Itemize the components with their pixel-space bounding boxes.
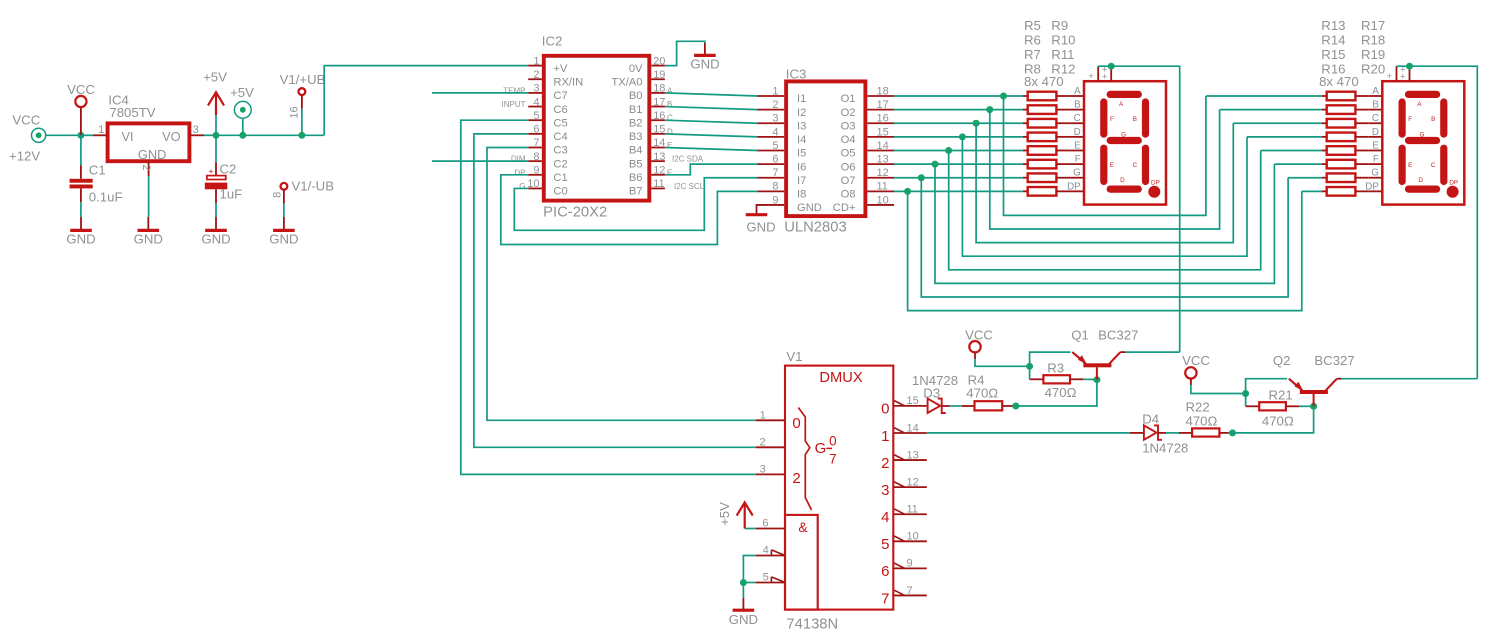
svg-text:19: 19 <box>653 69 665 81</box>
svg-text:6: 6 <box>881 563 889 580</box>
svg-text:2: 2 <box>881 455 889 472</box>
svg-text:+: + <box>1102 72 1108 83</box>
IC3 pin 13 O6 <box>867 163 894 165</box>
wire segment DP to display 2 bus <box>908 191 1302 310</box>
svg-text:O7: O7 <box>841 175 856 187</box>
IC3 pin 4 I4 <box>758 136 785 138</box>
svg-text:13: 13 <box>877 154 889 166</box>
svg-text:GND: GND <box>138 147 166 162</box>
wire +5V rail to IC2 pin1 <box>324 66 528 136</box>
svg-text:2: 2 <box>533 69 539 81</box>
svg-text:R17: R17 <box>1361 18 1385 33</box>
svg-text:TEMP: TEMP <box>503 86 525 95</box>
DMUX input pin 3 <box>756 473 785 475</box>
svg-text:+5V: +5V <box>717 502 732 526</box>
svg-text:1uF: 1uF <box>220 187 243 202</box>
wire IC3 O8 to resistor network R12 <box>894 190 1023 192</box>
IC4 pin 3 VO <box>190 134 205 136</box>
svg-text:R10: R10 <box>1051 33 1075 48</box>
svg-text:C: C <box>1372 113 1379 124</box>
DMUX output 5 pin 10 <box>893 540 927 542</box>
svg-text:18: 18 <box>653 83 665 95</box>
svg-text:3: 3 <box>772 113 778 125</box>
svg-text:G: G <box>1371 168 1379 179</box>
svg-text:+: + <box>1386 71 1392 82</box>
wire display 1 common to Q1 collector <box>1111 66 1180 352</box>
wires IC2 B0-B4 to IC3 I1-I5 <box>665 93 758 96</box>
DMUX output 3 pin 12 <box>893 486 927 488</box>
resistor R14 (array 2, segment B) <box>1322 109 1327 111</box>
svg-text:C0: C0 <box>553 186 567 198</box>
wire IC3 O1 to resistor network R5 <box>894 95 1023 97</box>
+5V arrow symbol at regulator output <box>208 92 224 105</box>
resistor R8 (array 1, segment D) <box>1023 136 1028 138</box>
svg-text:E: E <box>1074 140 1081 151</box>
wire IC3 O3 to resistor network R7 <box>894 122 1023 124</box>
wire IC2 pin20 to ground <box>665 41 705 65</box>
svg-text:C: C <box>1431 162 1436 169</box>
svg-text:18: 18 <box>877 85 889 97</box>
+5V arrow at DMUX pin6 <box>745 528 756 530</box>
wire DMUX pins 4,5 to ground <box>743 556 755 583</box>
resistor R15 (array 2, segment C) <box>1322 122 1327 124</box>
wire segment F to display 2 bus <box>935 164 1274 283</box>
svg-text:I2C SDA: I2C SDA <box>672 155 704 164</box>
DMUX output 7 pin 7 <box>893 594 927 596</box>
svg-text:470Ω: 470Ω <box>1045 385 1077 400</box>
svg-text:C: C <box>1074 113 1081 124</box>
zener diode D4 1N4728 <box>1130 432 1144 434</box>
svg-text:B5: B5 <box>629 158 643 170</box>
resistor R6 (array 1, segment B) <box>1023 109 1028 111</box>
wire VCC to Q2 emitter <box>1246 379 1287 394</box>
svg-text:Q1: Q1 <box>1071 327 1089 342</box>
display 2 pin G <box>1369 177 1383 179</box>
ground C2 <box>215 217 217 230</box>
svg-text:B2: B2 <box>629 117 643 129</box>
svg-text:20: 20 <box>653 55 665 67</box>
IC2 pin 14 B4 <box>651 147 665 149</box>
svg-text:10: 10 <box>907 531 919 543</box>
svg-text:GND: GND <box>201 231 230 246</box>
wire G net IC2 pin10 to IC3 I7 <box>514 178 757 231</box>
display 1 segment B <box>1142 98 1149 137</box>
+5V rail wire <box>216 134 324 136</box>
svg-text:VI: VI <box>122 129 134 144</box>
node segment D branch <box>959 133 966 140</box>
svg-text:14: 14 <box>877 140 889 152</box>
wire VCC to Q1 emitter <box>1030 352 1071 366</box>
svg-text:470Ω: 470Ω <box>966 386 998 401</box>
display 2 pin DP <box>1369 190 1383 192</box>
svg-text:B: B <box>1372 100 1379 111</box>
svg-text:9: 9 <box>772 194 778 206</box>
resistor R20 (array 2, segment DP) <box>1322 190 1327 192</box>
display 1 pin DP <box>1070 190 1084 192</box>
svg-text:E: E <box>1372 140 1379 151</box>
svg-text:R11: R11 <box>1051 47 1074 62</box>
display 1 pin F <box>1070 163 1084 165</box>
svg-text:+5V: +5V <box>203 69 227 84</box>
svg-text:+5V: +5V <box>230 85 254 100</box>
svg-text:ULN2803: ULN2803 <box>784 220 847 236</box>
IC2 pin 7 C3 <box>528 147 542 149</box>
svg-text:3: 3 <box>760 463 766 475</box>
svg-text:B: B <box>1133 116 1137 123</box>
node R22 output <box>1229 429 1236 436</box>
zener diode D3 1N4728 <box>928 399 941 413</box>
IC2 pin 18 B0 <box>651 92 665 94</box>
IC3 pin 7 I7 <box>758 177 785 179</box>
svg-text:B3: B3 <box>629 131 643 143</box>
svg-text:D: D <box>1074 127 1081 138</box>
voltage regulator IC4 7805TV <box>108 123 190 161</box>
svg-text:IC3: IC3 <box>786 67 807 82</box>
svg-text:9: 9 <box>533 165 539 177</box>
svg-text:V1/+UB: V1/+UB <box>280 72 326 87</box>
ground IC2 pin20 <box>694 54 716 57</box>
resistor R21 470 <box>1245 394 1247 407</box>
display 1 pin C <box>1070 122 1084 124</box>
svg-text:R5: R5 <box>1024 18 1041 33</box>
svg-text:I6: I6 <box>797 161 806 173</box>
svg-text:GND: GND <box>746 219 775 234</box>
VCC supply symbol <box>80 107 82 135</box>
svg-text:C5: C5 <box>553 117 567 129</box>
IC4 pin 1 VI <box>93 134 108 136</box>
svg-text:3: 3 <box>533 83 539 95</box>
svg-text:2: 2 <box>792 470 800 487</box>
wire DMUX output 1 to D4 <box>927 432 1130 434</box>
svg-text:+: + <box>209 166 214 176</box>
IC3 pin 6 I6 <box>758 163 785 165</box>
DMUX AND sub-block <box>785 515 818 610</box>
svg-text:C4: C4 <box>553 131 567 143</box>
svg-text:3: 3 <box>193 124 199 136</box>
wire IC2 C5 to DMUX pin3 <box>461 120 756 474</box>
svg-text:DP: DP <box>1365 181 1379 192</box>
display 2 segment F <box>1399 98 1406 137</box>
wire R4 to Q1 base <box>1016 380 1097 406</box>
svg-text:13: 13 <box>653 151 665 163</box>
wire segment C to display 2 bus <box>976 123 1233 242</box>
svg-text:17: 17 <box>877 99 889 111</box>
pad V1/+UB pin 16 <box>299 88 306 95</box>
svg-text:O2: O2 <box>841 107 856 119</box>
svg-text:D4: D4 <box>1142 412 1159 427</box>
svg-text:VCC: VCC <box>67 82 95 97</box>
svg-text:C6: C6 <box>553 104 567 116</box>
svg-text:12: 12 <box>877 167 889 179</box>
demultiplexer V1 74138N <box>785 366 893 610</box>
display 1 segment D <box>1107 186 1142 193</box>
IC2 pin 1 +V <box>528 65 542 67</box>
svg-text:O6: O6 <box>841 161 856 173</box>
svg-text:E: E <box>667 141 672 150</box>
svg-text:C7: C7 <box>553 90 567 102</box>
svg-text:D3: D3 <box>923 386 940 401</box>
svg-text:0: 0 <box>829 433 836 448</box>
svg-text:I2: I2 <box>797 107 806 119</box>
svg-text:I7: I7 <box>797 175 806 187</box>
IC4 pin 2 GND <box>148 161 150 176</box>
display 2 segment C <box>1440 145 1447 186</box>
svg-text:470Ω: 470Ω <box>1186 413 1218 428</box>
svg-text:GND: GND <box>690 57 719 72</box>
svg-text:6: 6 <box>762 518 768 530</box>
svg-text:G: G <box>1073 168 1081 179</box>
node segment E branch <box>945 147 952 154</box>
IC3 pin 15 O4 <box>867 136 894 138</box>
svg-text:DP: DP <box>514 168 525 177</box>
svg-text:O5: O5 <box>841 148 856 160</box>
svg-text:IC2: IC2 <box>542 33 563 48</box>
node segment B branch <box>986 106 993 113</box>
svg-text:O1: O1 <box>841 93 856 105</box>
svg-text:PIC-20X2: PIC-20X2 <box>543 204 607 220</box>
svg-text:C1: C1 <box>89 162 106 177</box>
svg-text:1: 1 <box>533 55 539 67</box>
DMUX output 2 pin 13 <box>893 459 927 461</box>
svg-text:G: G <box>1121 132 1126 139</box>
svg-text:Q2: Q2 <box>1273 353 1291 368</box>
DMUX enable pin 5 (inverted) <box>756 582 785 584</box>
svg-text:74138N: 74138N <box>786 616 838 632</box>
wire IC2 C3 to DMUX pin1 <box>487 148 756 421</box>
node rail at +5V pad <box>239 132 246 139</box>
svg-text:R13: R13 <box>1321 18 1345 33</box>
svg-text:12: 12 <box>653 165 665 177</box>
IC2 pin 10 C0 <box>528 187 542 189</box>
display 1 decimal point <box>1148 186 1160 198</box>
svg-text:7: 7 <box>772 167 778 179</box>
IC2 pin 5 C5 <box>528 119 542 121</box>
IC3 pin 9 GND <box>758 204 785 206</box>
node Q2 emitter/R21 junction <box>1242 390 1249 397</box>
wire IC3 O4 to resistor network R8 <box>894 136 1023 138</box>
svg-text:8x 470: 8x 470 <box>1319 74 1359 89</box>
svg-text:11: 11 <box>907 504 918 516</box>
supply pad VCC (+12V input) <box>31 128 45 142</box>
node Q1 emitter/R3 junction <box>1026 363 1033 370</box>
IC2 pin 8 C2 <box>528 160 542 162</box>
wire IC2 C4 to DMUX pin2 <box>474 134 756 447</box>
resistor R3 470 <box>1029 366 1031 379</box>
svg-text:A: A <box>1074 86 1081 97</box>
display 1 common anode pins + <box>1097 66 1099 81</box>
svg-text:0V: 0V <box>629 63 643 75</box>
svg-text:E: E <box>1408 162 1412 169</box>
svg-text:BC327: BC327 <box>1314 353 1354 368</box>
resistor R12 (array 1, segment DP) <box>1023 190 1028 192</box>
ground IC4 <box>147 217 149 230</box>
display 1 segment E <box>1100 145 1107 186</box>
svg-text:VO: VO <box>162 129 181 144</box>
display 1 segment F <box>1100 98 1107 137</box>
svg-text:B: B <box>667 100 672 109</box>
svg-text:1: 1 <box>772 85 778 97</box>
IC2 pin 15 B3 <box>651 133 665 135</box>
svg-text:D: D <box>1120 177 1125 184</box>
svg-text:13: 13 <box>907 449 919 461</box>
svg-text:A: A <box>1372 86 1379 97</box>
svg-text:R21: R21 <box>1269 388 1293 403</box>
svg-text:A: A <box>667 86 673 95</box>
supply VCC for Q2 <box>1185 367 1196 378</box>
DMUX input pin 1 <box>756 419 785 421</box>
svg-text:R6: R6 <box>1024 33 1041 48</box>
svg-text:470Ω: 470Ω <box>1262 413 1294 428</box>
svg-text:B4: B4 <box>629 145 643 157</box>
svg-text:1N4728: 1N4728 <box>1142 440 1188 455</box>
IC2 pin 11 B7 <box>651 187 665 189</box>
resistor R4 470 <box>962 405 975 407</box>
display 2 segment D <box>1405 186 1440 193</box>
svg-text:6: 6 <box>772 154 778 166</box>
svg-text:8: 8 <box>272 192 284 198</box>
resistor R5 (array 1, segment A) <box>1023 95 1028 97</box>
svg-text:GND: GND <box>797 202 822 214</box>
svg-text:GND: GND <box>66 231 95 246</box>
wire display 2 common to Q2 collector <box>1410 66 1478 379</box>
IC3 pin 2 I2 <box>758 109 785 111</box>
display 2 pin A <box>1369 95 1383 97</box>
node rail at C2 <box>213 132 220 139</box>
svg-text:DP: DP <box>1067 181 1081 192</box>
DMUX output 6 pin 9 <box>893 567 927 569</box>
svg-text:+12V: +12V <box>9 149 40 164</box>
svg-text:4: 4 <box>772 126 778 138</box>
IC2 pin 9 C1 <box>528 174 542 176</box>
svg-text:+: + <box>1400 72 1406 83</box>
display 1 segment C <box>1142 145 1149 186</box>
svg-text:7: 7 <box>907 585 913 597</box>
svg-text:I3: I3 <box>797 120 806 132</box>
svg-text:R9: R9 <box>1051 18 1068 33</box>
svg-text:7805TV: 7805TV <box>109 105 155 120</box>
svg-text:O3: O3 <box>841 120 856 132</box>
wire DP net IC2 pin9 to IC3 I8 <box>501 175 758 245</box>
svg-text:VCC: VCC <box>1182 353 1210 368</box>
resistor R22 470 <box>1179 432 1192 434</box>
wire IC3 O5 to resistor network R9 <box>894 149 1023 151</box>
transistor Q2 BC327 (PNP) <box>1300 390 1328 394</box>
svg-text:RX/IN: RX/IN <box>553 76 583 88</box>
svg-text:1: 1 <box>98 124 104 136</box>
svg-text:F: F <box>1408 116 1412 123</box>
IC2 pin 12 B6 <box>651 174 665 176</box>
svg-text:VCC: VCC <box>12 112 40 127</box>
svg-text:10: 10 <box>527 178 539 190</box>
microcontroller IC2 PIC-20X2 <box>544 56 650 201</box>
supply pad +5V <box>234 101 251 118</box>
IC2 pin 19 TX/A0 <box>651 78 665 80</box>
svg-text:F: F <box>1075 154 1081 165</box>
wire IC3 O7 to resistor network R11 <box>894 177 1023 179</box>
driver IC3 ULN2803 <box>786 81 865 216</box>
svg-text:16: 16 <box>877 113 889 125</box>
DMUX input pin 2 <box>756 446 785 448</box>
wire Q2 collector to display2 common <box>1342 378 1478 380</box>
svg-text:+: + <box>1088 71 1094 82</box>
svg-text:C2: C2 <box>220 161 237 176</box>
node segment DP branch <box>904 188 911 195</box>
IC2 pin 20 0V <box>651 65 665 67</box>
svg-text:7: 7 <box>533 137 539 149</box>
svg-text:B0: B0 <box>629 90 643 102</box>
svg-text:11: 11 <box>653 178 664 190</box>
svg-text:B6: B6 <box>629 172 643 184</box>
wire IC3 O6 to resistor network R10 <box>894 163 1023 165</box>
wire segment E to display 2 bus <box>949 150 1261 269</box>
svg-text:1: 1 <box>760 409 766 421</box>
svg-text:14: 14 <box>907 422 919 434</box>
resistor R17 (array 2, segment E) <box>1322 149 1327 151</box>
resistor R16 (array 2, segment D) <box>1322 136 1327 138</box>
svg-text:B7: B7 <box>629 186 643 198</box>
wire TEMP pin3 <box>432 92 528 94</box>
svg-text:I8: I8 <box>797 189 806 201</box>
svg-text:GND: GND <box>269 231 298 246</box>
IC3 pin 10 CD+ <box>867 204 894 206</box>
resistor R11 (array 1, segment G) <box>1023 177 1028 179</box>
svg-text:I5: I5 <box>797 148 806 160</box>
svg-text:GND: GND <box>134 231 163 246</box>
IC2 pin 13 B5 <box>651 160 665 162</box>
svg-text:E: E <box>1110 162 1114 169</box>
IC2 pin 6 C4 <box>528 133 542 135</box>
node DMUX enable junction <box>740 579 747 586</box>
svg-text:8: 8 <box>533 151 539 163</box>
svg-text:B: B <box>1074 100 1081 111</box>
DMUX enable pin 6 <box>756 528 785 530</box>
node Q1 base <box>1093 376 1100 383</box>
wire segment G to display 2 bus <box>921 178 1288 297</box>
svg-text:R7: R7 <box>1024 47 1041 62</box>
svg-text:7: 7 <box>881 590 889 607</box>
svg-text:G: G <box>815 440 827 457</box>
IC3 pin 12 O7 <box>867 177 894 179</box>
ground V1/-UB <box>283 217 285 230</box>
display 2 pin B <box>1369 109 1383 111</box>
IC2 pin 17 B1 <box>651 106 665 108</box>
node display 2 common <box>1406 63 1413 70</box>
IC3 pin 18 O1 <box>867 95 894 97</box>
IC2 pin 2 RX/IN <box>528 78 542 80</box>
display 2 segment G <box>1405 137 1440 144</box>
svg-text:R14: R14 <box>1321 33 1345 48</box>
DMUX output 4 pin 11 <box>893 513 927 515</box>
display 1 pin B <box>1070 109 1084 111</box>
resistor R10 (array 1, segment F) <box>1023 163 1028 165</box>
svg-text:6: 6 <box>533 124 539 136</box>
svg-text:F: F <box>1110 116 1114 123</box>
svg-text:DMUX: DMUX <box>819 370 862 386</box>
svg-text:TX/A0: TX/A0 <box>611 76 642 88</box>
7-segment display 2 body <box>1382 81 1464 204</box>
svg-text:4: 4 <box>881 509 889 526</box>
svg-text:F: F <box>667 168 672 177</box>
svg-text:8x 470: 8x 470 <box>1024 74 1064 89</box>
DMUX enable pin 4 (inverted) <box>756 555 785 557</box>
svg-text:16: 16 <box>653 110 665 122</box>
svg-text:DIM: DIM <box>511 155 526 164</box>
svg-text:DP: DP <box>1449 179 1458 186</box>
svg-text:5: 5 <box>533 110 539 122</box>
svg-text:0: 0 <box>881 401 889 418</box>
svg-text:0.1uF: 0.1uF <box>89 189 123 204</box>
svg-text:G: G <box>1419 132 1424 139</box>
